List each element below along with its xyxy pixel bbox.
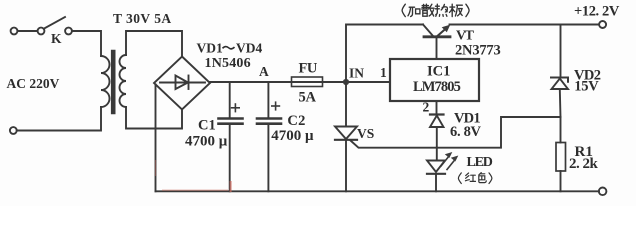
svg-text:LM7805: LM7805	[413, 79, 461, 95]
svg-text:AC 220V: AC 220V	[7, 76, 60, 91]
label FU	[299, 61, 318, 77]
wire secondary top to bridge top corner	[126, 31, 182, 56]
transistor VT 2N3773	[423, 25, 450, 60]
node A	[259, 64, 269, 79]
label 2N3773	[455, 43, 501, 59]
svg-text:4700 μ: 4700 μ	[185, 133, 228, 149]
svg-text:1: 1	[380, 65, 387, 80]
svg-text:1N5406: 1N5406	[205, 56, 251, 71]
zener VD1 6.8V	[430, 115, 444, 148]
capacitor C2	[257, 82, 281, 191]
svg-text:C1: C1	[198, 118, 216, 134]
label AC 220V	[7, 76, 60, 91]
wire IN junction up to pass transistor rail	[346, 25, 423, 83]
svg-text:VD4: VD4	[236, 41, 262, 56]
capacitor C1	[219, 82, 243, 191]
resistor R1	[556, 143, 566, 192]
wire bridge positive rail to fuse	[210, 81, 292, 83]
svg-text:VT: VT	[456, 28, 475, 43]
LED red	[427, 161, 445, 192]
IC1 LM7805 box	[390, 59, 479, 101]
svg-text:4700 μ: 4700 μ	[271, 128, 314, 144]
transformer core	[111, 52, 116, 112]
wire primary bottom to terminal	[17, 107, 101, 131]
svg-text:LED: LED	[467, 155, 493, 170]
label 15V	[574, 79, 599, 95]
label VD1~VD4	[197, 41, 263, 56]
label K	[51, 31, 62, 46]
wire pin2 down to zener VD1	[436, 101, 438, 114]
wire switch to primary	[72, 31, 101, 56]
svg-text:15V: 15V	[574, 79, 599, 95]
terminal bottom-left	[10, 127, 17, 134]
pin 2	[423, 100, 430, 115]
transformer T secondary winding	[120, 55, 126, 107]
bridge rectifier VD1~VD4 diamond	[154, 57, 210, 110]
wire VD2 to resistor R1	[560, 117, 562, 143]
wire terminal to switch	[18, 30, 38, 32]
label (红色) red color note	[458, 173, 492, 184]
VS gate wire to VD1/LED junction and OUT step	[351, 117, 561, 148]
wire fuse to IC input	[323, 81, 391, 83]
label R1	[575, 144, 593, 160]
label VS	[357, 126, 374, 141]
label 6.8V	[450, 124, 482, 140]
junction node IN	[343, 79, 349, 85]
terminal +12.2V	[599, 21, 606, 28]
wire VT emitter to +12.2V terminal	[450, 24, 600, 26]
label IN	[349, 66, 364, 81]
svg-text:IN: IN	[349, 66, 364, 81]
LED arrows	[441, 152, 458, 170]
label VD2	[574, 68, 601, 84]
svg-text:5A: 5A	[299, 90, 317, 106]
label 2.2k	[569, 156, 599, 172]
zener VD2 15V	[551, 78, 568, 118]
svg-text:6. 8V: 6. 8V	[450, 124, 482, 140]
fuse FU	[292, 77, 323, 87]
red scan artifacts	[156, 160, 231, 192]
svg-text:K: K	[51, 31, 62, 46]
label VT	[456, 28, 475, 43]
label 4700u C1	[185, 133, 228, 149]
svg-text:T 30V 5A: T 30V 5A	[113, 11, 172, 26]
svg-text:VD1: VD1	[197, 41, 223, 56]
label +12.2V	[574, 3, 620, 19]
svg-text:A: A	[259, 64, 269, 79]
pin 1	[380, 65, 387, 80]
label T 30V 5A	[113, 11, 172, 26]
wire secondary bottom to bridge bottom corner	[126, 107, 182, 129]
thyristor VS	[335, 82, 357, 191]
switch K	[38, 17, 72, 34]
ground rail	[156, 190, 600, 192]
label LED	[467, 155, 493, 170]
wire VD1 to LED	[436, 148, 438, 161]
label IC1	[427, 63, 450, 79]
svg-text:2: 2	[423, 100, 430, 115]
label 1N5406	[205, 56, 251, 71]
label (加散热板) heat sink note	[402, 4, 469, 16]
svg-text:IC1: IC1	[427, 63, 450, 79]
svg-text:C2: C2	[287, 113, 305, 129]
svg-text:2. 2k: 2. 2k	[569, 156, 599, 172]
label 4700u C2	[271, 128, 314, 144]
wire bridge negative to ground rail	[155, 85, 157, 192]
label C1	[198, 118, 216, 134]
label C2	[287, 113, 305, 129]
svg-text:VS: VS	[357, 126, 374, 141]
label 5A	[299, 90, 317, 106]
bridge diode symbol	[160, 76, 205, 90]
svg-text:FU: FU	[299, 61, 318, 77]
svg-text:+12. 2V: +12. 2V	[574, 3, 620, 19]
transformer T primary winding	[101, 56, 110, 107]
terminal bottom-right	[599, 188, 607, 196]
wire top rail down to zener VD2	[560, 25, 562, 78]
terminal top-left	[11, 28, 18, 35]
label VD1	[454, 110, 480, 126]
label LM7805	[413, 79, 461, 95]
svg-text:2N3773: 2N3773	[455, 43, 501, 59]
